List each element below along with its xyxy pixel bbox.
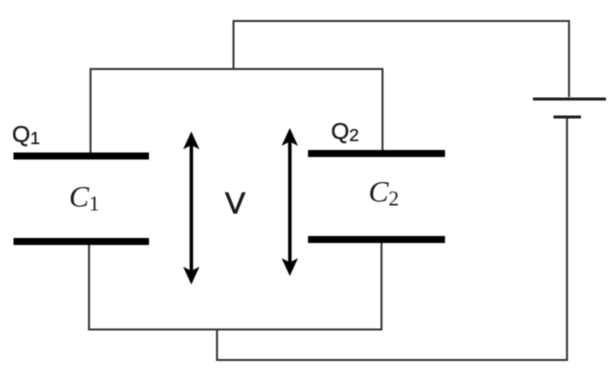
capacitor C1 bottom plate: [14, 238, 150, 245]
wire vertical stub node B up to capacitor bottom bus: [216, 330, 218, 362]
wire C1 top lead: [90, 68, 92, 155]
capacitor C1 top plate: [14, 153, 150, 160]
wire bottom outer horizontal: [217, 359, 568, 361]
svg-text:Q1: Q1: [12, 121, 40, 148]
arrow voltage left (double-headed): [183, 132, 199, 285]
capacitor C2 top plate: [308, 150, 445, 157]
wire C2 top lead: [382, 68, 384, 152]
arrow voltage right (double-headed): [282, 128, 298, 276]
svg-text:Q2: Q2: [331, 118, 359, 145]
wire battery top lead: [568, 20, 570, 97]
svg-text:V: V: [225, 187, 246, 221]
svg-text:C2: C2: [369, 176, 400, 211]
svg-text:C1: C1: [69, 181, 100, 216]
wire C1 bottom lead: [88, 243, 90, 331]
wire vertical stub node A down to capacitor top bus: [233, 20, 235, 69]
wire battery bottom lead / right vertical: [566, 118, 568, 360]
wire C2 bottom lead: [381, 241, 383, 331]
battery negative plate (short): [554, 116, 582, 119]
wire capacitor top bus horizontal: [90, 68, 384, 70]
battery positive plate (long): [533, 98, 606, 101]
capacitor C2 bottom plate: [308, 236, 445, 243]
wire top horizontal (battery + to node A): [234, 20, 570, 22]
wire capacitor bottom bus horizontal: [89, 329, 383, 331]
